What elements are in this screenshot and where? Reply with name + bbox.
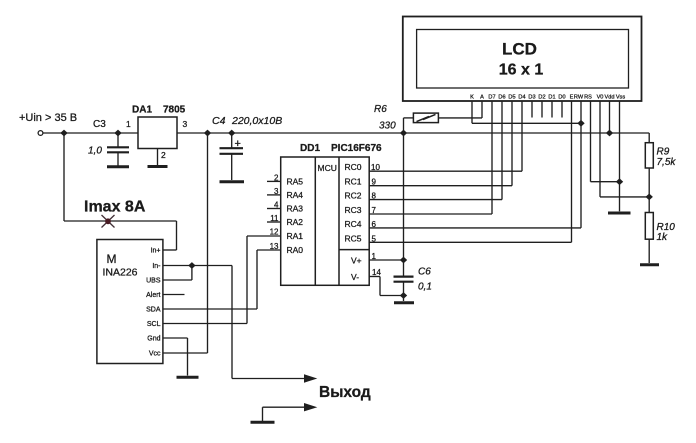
node: junction In-/UBS [188,262,195,269]
svg-text:Gnd: Gnd [147,336,160,343]
wire: shunt path from rail down to INA226 In+ [64,133,177,250]
svg-text:13: 13 [270,242,279,251]
LCD pin RS to ground wire [591,101,620,182]
svg-text:RC3: RC3 [345,205,362,215]
pin 10 wire RC0 to LCD D4 [369,101,522,172]
ground below C3 [107,165,129,168]
svg-text:2: 2 [161,150,166,160]
svg-text:D7: D7 [488,95,495,101]
svg-text:D4: D4 [518,95,525,101]
pin 14 wire V- [369,268,403,296]
svg-text:330: 330 [379,121,396,132]
LCD pin Vss to ground [619,101,621,211]
svg-text:D0: D0 [558,95,565,101]
svg-text:RA2: RA2 [287,217,304,227]
svg-text:C3: C3 [93,119,106,130]
node: junction Vdd/rail [606,130,613,137]
svg-text:LCD: LCD [502,40,537,59]
svg-text:D5: D5 [508,95,515,101]
wire: SCL to RA1 [163,236,281,324]
svg-text:SDA: SDA [146,307,161,314]
svg-text:MCU: MCU [318,163,337,173]
ground for output return [251,421,275,424]
svg-text:DA1: DA1 [132,105,152,116]
ground below C4 [220,180,245,183]
node: junction at C3 [114,130,121,137]
svg-text:0,1: 0,1 [418,282,432,293]
wire: In- to output vertical [163,265,232,267]
pin 11 stub RA2 [267,214,281,223]
arrowhead output return [304,403,317,411]
svg-text:7805: 7805 [163,105,186,116]
svg-text:RC5: RC5 [345,233,362,243]
capacitor C4 (electrolytic) [212,115,282,180]
pin 7 wire RC3 to LCD D7 [369,101,492,215]
svg-text:16 x 1: 16 x 1 [499,62,544,79]
pin 8 wire RC2 to LCD D6 [369,101,502,201]
svg-text:UBS: UBS [146,278,161,285]
resistor R6 [374,104,482,133]
pin 9 wire RC1 to LCD D5 [369,101,512,187]
ground below R10 [640,263,659,266]
svg-text:RC2: RC2 [345,191,362,201]
input terminal +Uin [19,112,77,135]
svg-text:Выход: Выход [319,384,371,401]
ground below Vss [608,212,631,215]
svg-text:D6: D6 [498,95,505,101]
MCU DD1 PIC16F676 [281,143,382,285]
arrowhead output [304,374,317,382]
wire: rail corner down to R9 [648,133,650,143]
svg-text:+Uin > 35 В: +Uin > 35 В [19,112,77,124]
wire: +5V drop to V+ / C6 [403,133,405,276]
svg-text:RA3: RA3 [287,204,304,214]
wire: output ground to arrow [263,407,307,421]
svg-text:Vss: Vss [616,95,626,101]
svg-text:R6: R6 [374,104,387,115]
svg-text:In-: In- [152,263,161,270]
node: junction R9/R10/V0 [646,194,653,201]
LCD pin D2 stub [541,101,543,118]
current monitor M INA226 [97,240,163,364]
pin 2 stub RA5 [267,173,281,182]
svg-text:V0: V0 [597,95,604,101]
pin 6 wire RC4 to LCD RW [369,101,581,229]
svg-text:RA5: RA5 [287,177,304,187]
svg-text:C4: C4 [212,115,226,127]
svg-text:Vcc: Vcc [149,351,161,358]
svg-text:V-: V- [351,272,359,282]
svg-text:C6: C6 [418,267,431,278]
svg-text:220,0x10В: 220,0x10В [231,115,282,127]
svg-text:K: K [470,95,474,101]
svg-text:M: M [107,252,117,266]
svg-text:R9: R9 [657,147,670,158]
svg-text:SCL: SCL [147,321,161,328]
svg-text:14: 14 [372,268,381,277]
svg-text:RS: RS [584,95,592,101]
svg-text:1: 1 [126,119,131,129]
wire: SDA to RA0 [163,250,281,309]
wire: UBS tie to In- [163,266,192,281]
LCD pin D0 stub [561,101,563,118]
svg-text:7,5k: 7,5k [657,157,677,168]
LCD pin Vdd to +5V rail [609,101,611,133]
resistor R10 [645,213,675,244]
svg-text:V+: V+ [351,256,362,266]
wire: output from In- down and right [232,266,306,379]
voltage regulator DA1 7805 [126,105,188,166]
wire: Vcc pin to +5V vertical [163,352,208,354]
node: junction rail/R6 [400,130,407,137]
LCD module 16x1 [403,17,642,102]
wire: R10 to ground [648,239,650,263]
svg-text:Vdd: Vdd [605,95,615,101]
wire: Gnd pin to ground [163,338,188,376]
svg-text:Imax 8A: Imax 8A [84,199,146,216]
wire: R9 to R10 [648,168,650,213]
ground below INA226 Gnd [177,376,199,379]
svg-text:3: 3 [183,119,188,129]
wire: K to RW vertical [472,122,581,124]
LCD pin D1 stub [551,101,553,118]
svg-text:INA226: INA226 [103,267,138,279]
capacitor C3 [88,119,129,166]
svg-text:RA4: RA4 [287,190,304,200]
pin 4 stub RA3 [267,201,281,210]
svg-text:RA0: RA0 [287,245,304,255]
wire: +5V vertical to INA226 Vcc [207,133,209,353]
ground below C6 [394,301,414,304]
node: junction at x=207.5 (+5V down wire) [204,130,211,137]
pin 1 wire V+ [369,252,403,261]
capacitor C6 [394,267,432,302]
node: junction at C4 [228,130,235,137]
svg-text:1k: 1k [657,232,669,243]
svg-text:12: 12 [270,228,279,237]
ground below DA1 pin2 [148,165,168,168]
node: junction RS/Vss [616,178,623,185]
wire: Alert stub [163,294,185,296]
svg-text:In+: In+ [151,248,161,255]
svg-text:PIC16F676: PIC16F676 [331,143,382,154]
LCD pin K stub [471,101,473,123]
svg-text:RC1: RC1 [345,177,362,187]
svg-text:D2: D2 [538,95,545,101]
node: junction C6/V- [400,292,407,299]
svg-text:D3: D3 [528,95,535,101]
svg-text:A: A [480,95,484,101]
pin 5 wire RC5 to LCD E [369,101,571,243]
svg-text:1,0: 1,0 [88,146,102,157]
resistor R9 [645,143,676,168]
svg-text:RA1: RA1 [287,231,304,241]
node: junction V+ [400,257,407,264]
LCD pin D3 stub [531,101,533,118]
wire: input rail to DA1 pin1 [43,132,138,134]
node: junction at x=64 on input rail [60,130,67,137]
svg-text:RW: RW [574,95,584,101]
LCD pin A stub [481,101,483,118]
svg-text:RC0: RC0 [345,162,362,172]
svg-text:D1: D1 [548,95,555,101]
node: junction K/RW [577,120,584,127]
svg-text:RC4: RC4 [345,219,362,229]
wire: +5V rail from DA1 pin3 to R9 corner [177,132,649,134]
LCD pin V0 to R9/R10 junction [600,101,649,197]
svg-text:Alert: Alert [146,292,160,299]
pin 3 stub RA4 [267,187,281,196]
svg-text:DD1: DD1 [300,143,320,154]
red X mark over shunt wire [102,215,115,228]
